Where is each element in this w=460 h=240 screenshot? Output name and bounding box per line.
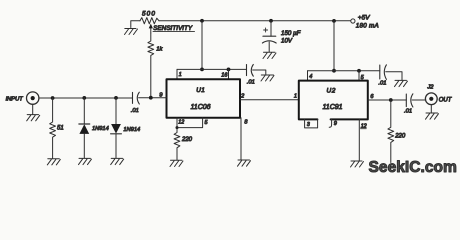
prescaler U2 11C91 box <box>299 81 368 120</box>
resistor R4 51 <box>50 98 56 158</box>
svg-text:.01: .01 <box>131 108 139 114</box>
svg-text:150 µF: 150 µF <box>281 30 302 37</box>
ground below J1 <box>27 115 40 121</box>
svg-text:1N914: 1N914 <box>123 127 140 133</box>
ground below pin 12 U2 <box>351 161 364 167</box>
svg-text:220: 220 <box>181 137 193 143</box>
svg-text:SENSITIVITY: SENSITIVITY <box>153 25 193 32</box>
svg-text:U1: U1 <box>196 87 205 94</box>
svg-text:180 mA: 180 mA <box>356 22 379 29</box>
node junction above U2 <box>332 69 336 73</box>
resistor R3 220 <box>174 128 180 160</box>
capacitor C6 .01 output <box>405 94 407 107</box>
svg-text:1: 1 <box>294 93 297 99</box>
resistor R2 1k <box>148 33 154 98</box>
pin 4 U2 <box>307 71 309 81</box>
diode D1 1N914 <box>83 98 85 124</box>
ground right of C2 <box>261 75 274 81</box>
svg-text:1k: 1k <box>156 46 163 52</box>
svg-text:INPUT: INPUT <box>6 97 24 103</box>
node junction R4 <box>51 96 55 100</box>
svg-text:12: 12 <box>178 119 184 125</box>
ground below R4 <box>47 159 60 165</box>
node junction D2 <box>114 96 118 100</box>
pin 9 U2 curl <box>329 119 331 127</box>
node junction R2 bottom <box>149 96 153 100</box>
pin 12 and 5 U1 bracket <box>177 118 203 128</box>
pin 1 U1 <box>176 69 178 79</box>
ground below R3 <box>170 160 183 166</box>
svg-text:+5V: +5V <box>358 15 370 22</box>
svg-text:.01: .01 <box>378 80 386 86</box>
node junction output <box>389 98 393 102</box>
node junction rail-U1 <box>200 19 204 23</box>
node junction pin12 <box>176 126 179 129</box>
svg-text:11C06: 11C06 <box>190 104 210 111</box>
wire U1 pin2 to U2 pin1 <box>240 99 299 101</box>
diode D2 1N914 <box>115 98 117 124</box>
pin 3 U2 bracket <box>305 119 318 128</box>
node junction pin5 <box>357 69 361 73</box>
node junction above U1 <box>200 68 204 72</box>
node junction D1 <box>82 96 86 100</box>
ground below D1 <box>79 158 92 164</box>
capacitor C1 150uF <box>270 21 272 36</box>
svg-text:.01: .01 <box>404 109 412 115</box>
wire U2 pin6 output <box>368 99 407 101</box>
svg-text:220: 220 <box>394 134 406 140</box>
svg-text:SeekIC.com: SeekIC.com <box>369 159 457 176</box>
svg-text:5: 5 <box>205 120 209 126</box>
svg-text:.01: .01 <box>247 80 255 86</box>
svg-text:11C91: 11C91 <box>322 104 342 111</box>
potentiometer R1 500 <box>140 18 159 24</box>
svg-text:3: 3 <box>307 122 310 128</box>
ground below D2 <box>111 158 124 164</box>
pin 16 U1 <box>228 69 230 79</box>
terminal +5V <box>351 19 355 23</box>
ground below C1 <box>263 52 276 58</box>
svg-text:6: 6 <box>370 94 374 100</box>
wire U1 top pin wire <box>177 68 247 70</box>
svg-text:2: 2 <box>240 93 245 99</box>
wire rail drop to U1 top <box>201 21 203 70</box>
connector J1 input BNC <box>27 92 39 104</box>
svg-text:J2: J2 <box>426 84 434 90</box>
resistor R5 220 <box>388 100 394 163</box>
wire top supply rail <box>159 20 351 22</box>
wire pot left to ground <box>131 21 140 28</box>
wire U2 top pin wire <box>308 70 380 72</box>
wire rail drop to U2 top <box>333 21 335 71</box>
svg-text:51: 51 <box>57 126 64 132</box>
svg-text:9: 9 <box>334 121 337 127</box>
pin 8 U1 <box>240 118 242 159</box>
wiper arrow R1 <box>150 27 152 34</box>
capacitor C5 .01 bypass U2 <box>379 65 381 79</box>
ground pot left <box>125 29 138 35</box>
svg-text:OUT: OUT <box>439 97 453 103</box>
node junction rail-U2 <box>332 19 336 23</box>
svg-text:1: 1 <box>179 72 182 78</box>
ground below pin 8 <box>238 160 251 166</box>
pin 5 U2 <box>358 71 360 81</box>
svg-text:500: 500 <box>142 11 156 18</box>
svg-text:4: 4 <box>309 74 312 80</box>
svg-text:8: 8 <box>244 119 248 125</box>
svg-text:10V: 10V <box>281 37 293 44</box>
capacitor C2 .01 <box>246 65 248 76</box>
capacitor C3 .01 input <box>132 92 134 103</box>
svg-text:1N914: 1N914 <box>92 126 109 132</box>
svg-text:16: 16 <box>221 72 228 78</box>
op-amp U1 11C06 box <box>167 79 241 118</box>
wire input line <box>39 97 133 99</box>
node junction pin16 <box>227 68 231 72</box>
ground right of C5 <box>395 80 408 86</box>
pin 12 U2 <box>358 119 360 160</box>
ground below J2 <box>426 113 439 119</box>
svg-text:U2: U2 <box>326 87 336 94</box>
node junction rail-C1 <box>269 19 273 23</box>
